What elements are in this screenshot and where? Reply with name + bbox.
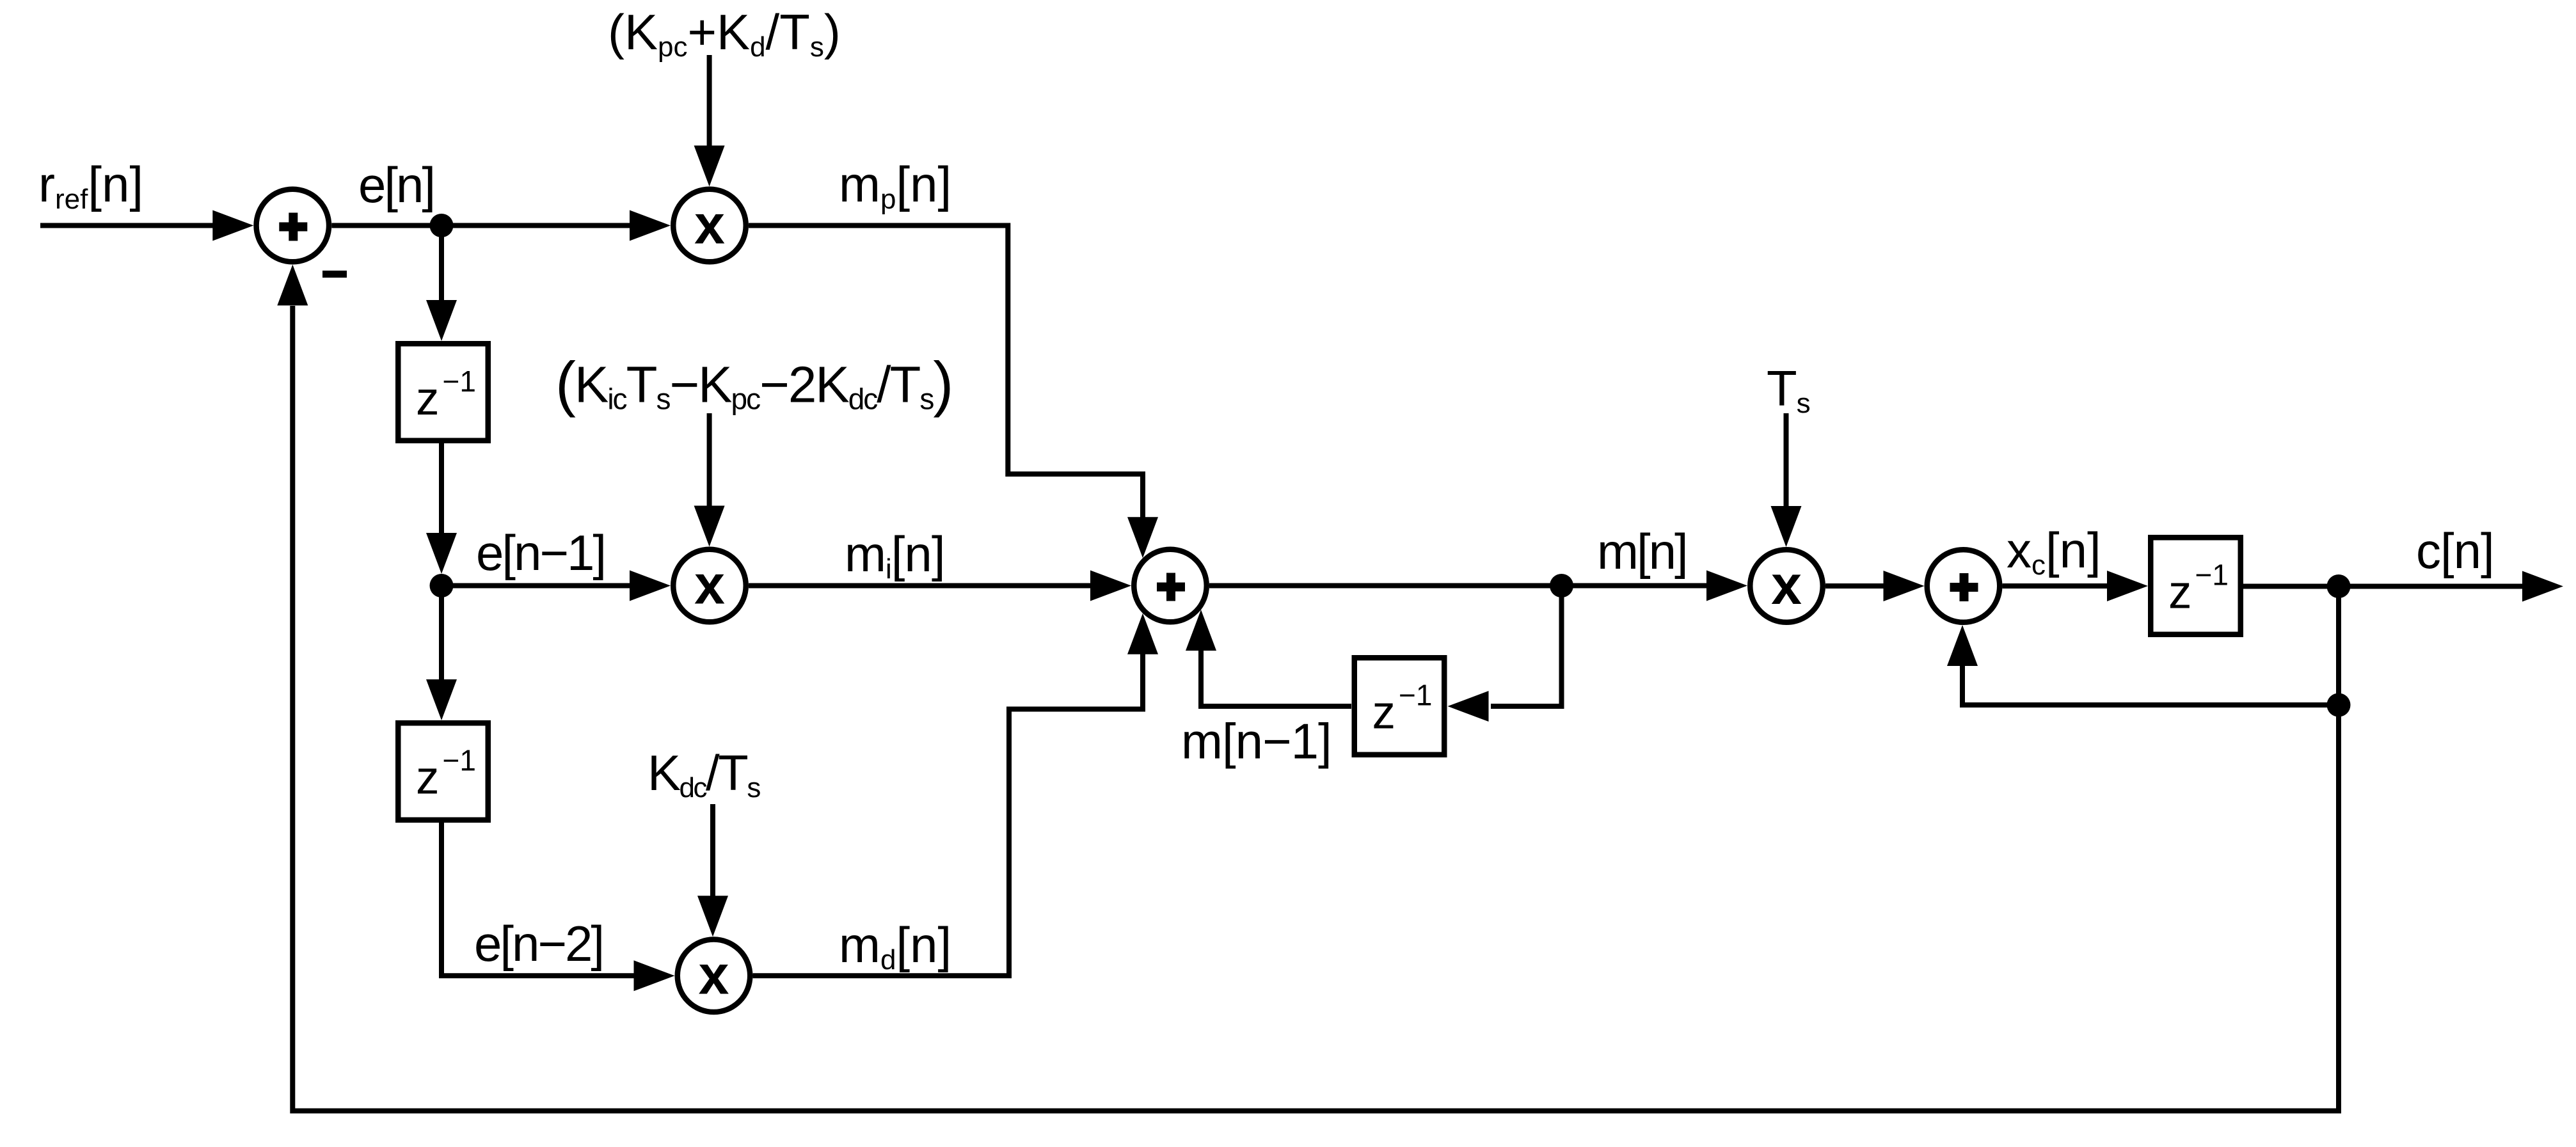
- svg-text:x: x: [694, 555, 725, 616]
- svg-text:md[n]: md[n]: [839, 917, 951, 976]
- svg-text:mp[n]: mp[n]: [839, 156, 951, 215]
- svg-text:x: x: [1771, 555, 1802, 616]
- svg-text:m[n−1]: m[n−1]: [1181, 713, 1332, 770]
- svg-text:mi[n]: mi[n]: [845, 526, 945, 585]
- svg-text:e[n−1]: e[n−1]: [476, 525, 605, 581]
- svg-text:e[n]: e[n]: [358, 157, 434, 213]
- svg-text:x: x: [694, 194, 725, 256]
- svg-text:(Kpc+Kd/Ts): (Kpc+Kd/Ts): [608, 4, 841, 63]
- svg-text:(KicTs−Kpc−2Kdc/Ts): (KicTs−Kpc−2Kdc/Ts): [555, 350, 952, 418]
- svg-text:x: x: [699, 944, 729, 1006]
- svg-text:rref[n]: rref[n]: [38, 156, 143, 215]
- svg-text:Ts​: Ts​: [1767, 360, 1810, 419]
- svg-text:m[n]: m[n]: [1597, 523, 1687, 580]
- svg-text:Kdc/Ts​: Kdc/Ts​: [648, 745, 760, 803]
- svg-text:e[n−2]: e[n−2]: [474, 915, 603, 972]
- svg-text:xc[n]: xc[n]: [2007, 522, 2101, 581]
- svg-text:c[n]: c[n]: [2416, 523, 2494, 579]
